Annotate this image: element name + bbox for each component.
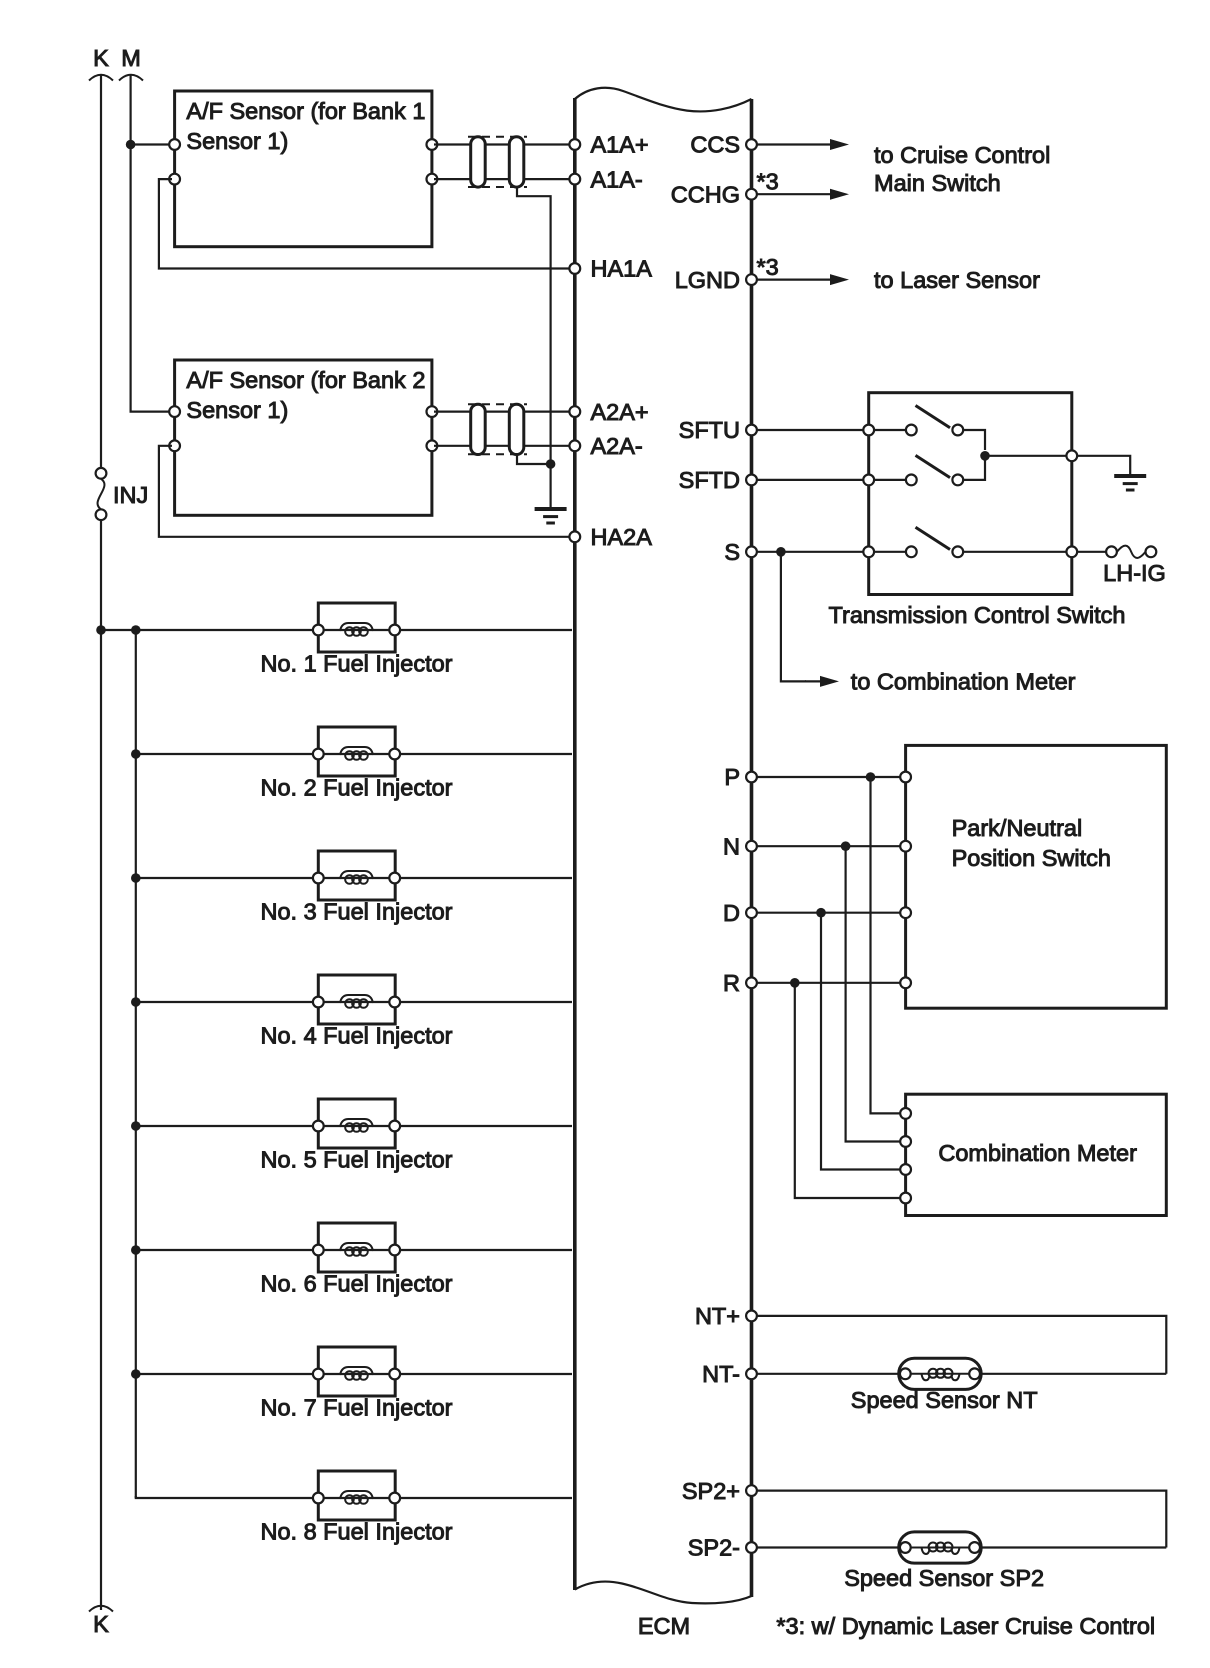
wire TCS sw1 right: [963, 430, 985, 450]
pin injector No.8 left: [313, 1493, 324, 1504]
wire SFTD: [757, 479, 866, 481]
svg-text:HA2A: HA2A: [591, 524, 653, 550]
terminal PNP D: [900, 907, 911, 918]
fuel injector No.1 box: [318, 603, 395, 652]
svg-text:R: R: [723, 970, 740, 996]
label No.1 Fuel Injector: [260, 650, 452, 676]
pin ECM R: [723, 970, 757, 996]
switch SFTU blade: [916, 406, 951, 428]
wire TCS sw1 left: [874, 429, 906, 431]
label No.5 Fuel Injector: [260, 1146, 452, 1172]
svg-text:INJ: INJ: [113, 482, 148, 508]
wire R: [757, 982, 903, 984]
pin ECM LGND: [675, 267, 757, 293]
pin B2 right2: [427, 440, 438, 451]
switch SFTD blade: [916, 455, 951, 477]
A/F sensor box (Bank 2 Sensor 1): [175, 360, 432, 515]
junction TCS common: [980, 451, 990, 461]
pin ECM A2A+: [569, 399, 648, 425]
svg-text:SFTD: SFTD: [679, 467, 740, 493]
fuel injector No.7 box: [318, 1347, 395, 1396]
ECM top break wave: [575, 88, 752, 112]
pin injector No.5 right: [389, 1121, 400, 1132]
terminal CM 3: [900, 1164, 911, 1175]
pin ECM HA1A: [569, 256, 652, 282]
wire A1A- pair: [434, 178, 572, 180]
label A/F Sensor Bank1 line1: [186, 98, 425, 124]
node M (top label): [121, 45, 141, 71]
junction bus/#50: [131, 1121, 141, 1131]
A/F sensor box (Bank 1 Sensor 1): [175, 91, 432, 247]
terminal CM 2: [900, 1136, 911, 1147]
svg-text:Position Switch: Position Switch: [952, 845, 1111, 871]
wire R to combination meter: [795, 983, 903, 1198]
wire #80 row left: [136, 1496, 318, 1498]
terminal CM 1: [900, 1108, 911, 1119]
shield ferrite TP2 a: [471, 404, 486, 454]
fuel injector No.3 box: [318, 851, 395, 900]
pin B2 left2: [169, 440, 180, 451]
terminal TCS SFTD: [863, 475, 874, 486]
terminal CM 4: [900, 1193, 911, 1204]
transmission control switch box: [869, 393, 1072, 595]
label Park/Neutral: [952, 815, 1083, 841]
terminal TCS SFTU: [863, 425, 874, 436]
shield dashes TP2: [468, 404, 527, 454]
junction bus/#10: [131, 625, 141, 635]
wire #20 row left: [136, 753, 318, 755]
pin injector No.6 right: [389, 1245, 400, 1256]
shield ferrite TP2 b: [509, 404, 524, 454]
wire #40 row left: [136, 1001, 318, 1003]
svg-text:A1A+: A1A+: [591, 132, 649, 158]
combination meter box: [906, 1094, 1167, 1215]
wire #60 row left: [136, 1249, 318, 1251]
pin injector No.1 right: [389, 625, 400, 636]
switch SFTD contact R: [952, 475, 963, 486]
pin ECM SFTU: [679, 417, 757, 443]
svg-text:CCHG: CCHG: [671, 181, 740, 207]
wire TCS to ground: [1077, 456, 1130, 474]
label Main Switch: [874, 170, 1001, 196]
wire S to LH-IG: [1077, 551, 1106, 553]
wire NT- left: [757, 1373, 899, 1375]
svg-text:A1A-: A1A-: [591, 166, 643, 192]
junction bus/#30: [131, 873, 141, 883]
label *3 (LGND): [757, 254, 779, 280]
pin injector No.8 right: [389, 1493, 400, 1504]
wire K rail upper: [100, 74, 102, 468]
label A/F Sensor Bank2 line1: [186, 367, 425, 393]
wire/arrow CCS to cruise control: [756, 139, 849, 150]
wire TCS common: [985, 455, 1067, 457]
junction bus/#60: [131, 1245, 141, 1255]
label A/F Sensor Bank1 line2: [186, 128, 288, 154]
pin speed sensor NT right: [969, 1368, 980, 1379]
pin ECM SP2-: [688, 1535, 757, 1561]
svg-text:CCS: CCS: [690, 132, 740, 158]
fuel injector No.1 coil: [323, 623, 572, 636]
terminal TCS common R: [1066, 450, 1077, 461]
pin ECM A1A-: [569, 166, 642, 192]
fuel injector No.5 coil: [323, 1119, 572, 1132]
junction R branch: [790, 978, 800, 988]
pin B2 left1: [169, 406, 180, 417]
wire M rail: [131, 74, 172, 412]
wire TCS sw2 right: [963, 456, 985, 480]
svg-text:Speed Sensor SP2: Speed Sensor SP2: [844, 1565, 1044, 1591]
park/neutral position switch box: [906, 745, 1167, 1008]
wire #10 row left: [101, 629, 318, 631]
pin injector No.5 left: [313, 1121, 324, 1132]
ECM bottom break wave: [575, 1582, 752, 1604]
speed sensor NT body: [899, 1358, 982, 1389]
label LH-IG: [1103, 560, 1166, 586]
svg-text:SP2-: SP2-: [688, 1535, 740, 1561]
wire TCS sw3 right: [963, 551, 1067, 553]
junction bus/#20: [131, 749, 141, 759]
junction N branch: [841, 841, 851, 851]
speed sensor NT coil: [910, 1369, 970, 1381]
svg-text:Main Switch: Main Switch: [874, 170, 1001, 196]
svg-text:LH-IG: LH-IG: [1103, 560, 1166, 586]
svg-text:A2A+: A2A+: [591, 399, 649, 425]
label Transmission Control Switch: [829, 602, 1126, 628]
junction shield drains: [546, 459, 556, 469]
svg-text:No. 2 Fuel Injector: No. 2 Fuel Injector: [260, 774, 452, 800]
label No.7 Fuel Injector: [260, 1394, 452, 1420]
node K (bottom label): [93, 1611, 109, 1637]
switch S blade: [916, 527, 951, 549]
wire A2A- pair: [434, 445, 572, 447]
svg-text:to Combination Meter: to Combination Meter: [851, 669, 1076, 695]
svg-text:SFTU: SFTU: [679, 417, 740, 443]
svg-text:Combination Meter: Combination Meter: [938, 1140, 1137, 1166]
wire SP2- right: [981, 1546, 1166, 1548]
label INJ: [113, 482, 148, 508]
svg-text:K: K: [93, 1611, 109, 1637]
label Speed Sensor NT: [851, 1387, 1038, 1413]
pin ECM D: [723, 900, 757, 926]
pin B1 left1: [169, 139, 180, 150]
terminal PNP R: [900, 977, 911, 988]
pin ECM P: [724, 764, 757, 790]
wire SP2+ loop: [757, 1491, 1166, 1548]
wire TP2 shield drain: [517, 454, 551, 464]
pin injector No.3 right: [389, 873, 400, 884]
svg-text:Speed Sensor NT: Speed Sensor NT: [851, 1387, 1038, 1413]
svg-text:SP2+: SP2+: [682, 1478, 740, 1504]
label No.2 Fuel Injector: [260, 774, 452, 800]
junction K/#10: [96, 625, 106, 635]
pin B1 right2: [427, 174, 438, 185]
label No.6 Fuel Injector: [260, 1270, 452, 1296]
svg-text:*3: w/ Dynamic Laser Cruise Co: *3: w/ Dynamic Laser Cruise Control: [776, 1613, 1155, 1639]
node K (top label): [93, 45, 109, 71]
fuse LH-IG: [1106, 546, 1156, 558]
svg-text:No. 8 Fuel Injector: No. 8 Fuel Injector: [260, 1518, 452, 1544]
svg-text:NT-: NT-: [702, 1361, 740, 1387]
svg-text:Transmission Control Switch: Transmission Control Switch: [829, 602, 1126, 628]
wire #50 row left: [136, 1125, 318, 1127]
fuel injector No.3 coil: [323, 871, 572, 884]
pin B2 right1: [427, 406, 438, 417]
label Position Switch: [952, 845, 1111, 871]
pin injector No.4 left: [313, 997, 324, 1008]
fuse INJ: [96, 468, 107, 520]
wire #70 row left: [136, 1373, 318, 1375]
junction M/B1: [126, 140, 136, 150]
wire K rail lower: [100, 520, 102, 1610]
svg-text:to Cruise Control: to Cruise Control: [874, 142, 1050, 168]
label A/F Sensor Bank2 line2: [186, 397, 288, 423]
svg-text:ECM: ECM: [638, 1613, 690, 1639]
wire B1 heater to HA1A: [159, 179, 572, 268]
wire P to combination meter: [871, 777, 904, 1113]
pin injector No.2 left: [313, 749, 324, 760]
junction S branch: [776, 547, 786, 557]
wire #30 row left: [136, 877, 318, 879]
label to Cruise Control: [874, 142, 1050, 168]
svg-text:P: P: [724, 764, 740, 790]
ground (shield): [535, 509, 567, 523]
fuel injector No.4 box: [318, 975, 395, 1024]
connector break K bottom: [89, 1606, 113, 1612]
pin injector No.7 right: [389, 1369, 400, 1380]
terminal TCS S out: [1066, 546, 1077, 557]
label No.8 Fuel Injector: [260, 1518, 452, 1544]
svg-text:Sensor 1): Sensor 1): [186, 128, 288, 154]
svg-text:N: N: [723, 833, 740, 859]
fuel injector No.4 coil: [323, 995, 572, 1008]
wire D: [757, 912, 903, 914]
terminal PNP N: [900, 841, 911, 852]
wire TP1 shield drain: [517, 187, 551, 462]
wire/arrow CCHG to cruise control: [756, 189, 849, 200]
wire injector bus: [135, 630, 137, 1498]
speed sensor SP2 coil: [910, 1543, 970, 1555]
label No.4 Fuel Injector: [260, 1022, 452, 1048]
svg-text:S: S: [724, 539, 740, 565]
wire B2 heater to HA2A: [159, 446, 572, 537]
switch SFTD contact L: [906, 475, 917, 486]
svg-text:HA1A: HA1A: [591, 256, 653, 282]
fuel injector No.6 box: [318, 1223, 395, 1272]
wire D to combination meter: [821, 913, 903, 1170]
pin speed sensor NT left: [900, 1368, 911, 1379]
fuel injector No.8 box: [318, 1471, 395, 1520]
wire SFTU: [757, 429, 866, 431]
shield ferrite TP1 a: [471, 137, 486, 187]
fuel injector No.2 box: [318, 727, 395, 776]
pin B1 left2: [169, 174, 180, 185]
svg-text:Park/Neutral: Park/Neutral: [952, 815, 1083, 841]
pin B1 right1: [427, 139, 438, 150]
fuel injector No.2 coil: [323, 747, 572, 760]
switch S contact L: [906, 546, 917, 557]
switch S contact R: [952, 546, 963, 557]
svg-text:A/F Sensor (for Bank 2: A/F Sensor (for Bank 2: [186, 367, 425, 393]
pin injector No.4 right: [389, 997, 400, 1008]
switch SFTU contact L: [906, 425, 917, 436]
pin ECM SFTD: [679, 467, 757, 493]
connector break K top: [89, 75, 113, 81]
connector break M top: [119, 75, 143, 81]
svg-text:No. 1 Fuel Injector: No. 1 Fuel Injector: [260, 650, 452, 676]
pin ECM NT+: [695, 1303, 757, 1329]
pin ECM A1A+: [569, 132, 648, 158]
wire P: [757, 776, 903, 778]
label to Combination Meter: [851, 669, 1076, 695]
pin ECM HA2A: [569, 524, 652, 550]
ECM right edge: [750, 99, 754, 1597]
wire M to B1 pin: [133, 143, 172, 145]
svg-text:A2A-: A2A-: [591, 433, 643, 459]
ECM left edge: [573, 98, 577, 1590]
footnote *3 dynamic laser cruise control: [776, 1613, 1155, 1639]
svg-text:NT+: NT+: [695, 1303, 740, 1329]
svg-text:No. 6 Fuel Injector: No. 6 Fuel Injector: [260, 1270, 452, 1296]
pin ECM A2A-: [569, 433, 642, 459]
wire NT- right: [981, 1373, 1166, 1375]
wire S: [757, 551, 866, 553]
svg-text:No. 4 Fuel Injector: No. 4 Fuel Injector: [260, 1022, 452, 1048]
svg-text:*3: *3: [757, 169, 779, 195]
wire shield to ground: [549, 464, 551, 507]
svg-text:M: M: [121, 45, 141, 71]
svg-text:to Laser Sensor: to Laser Sensor: [874, 267, 1040, 293]
pin ECM SP2+: [682, 1478, 757, 1504]
wire A1A+ pair: [434, 143, 572, 145]
svg-text:No. 5 Fuel Injector: No. 5 Fuel Injector: [260, 1146, 452, 1172]
switch SFTU contact R: [952, 425, 963, 436]
svg-text:*3: *3: [757, 254, 779, 280]
shield ferrite TP1 b: [509, 137, 524, 187]
pin injector No.1 left: [313, 625, 324, 636]
fuel injector No.8 coil: [323, 1491, 572, 1504]
junction D branch: [816, 908, 826, 918]
label ECM: [638, 1613, 690, 1639]
svg-text:No. 3 Fuel Injector: No. 3 Fuel Injector: [260, 898, 452, 924]
ground (TCS): [1114, 476, 1146, 490]
wire/arrow LGND to laser sensor: [756, 274, 849, 285]
wire NT+ loop: [757, 1316, 1166, 1374]
svg-text:No. 7 Fuel Injector: No. 7 Fuel Injector: [260, 1394, 452, 1420]
pin speed sensor SP2 right: [969, 1542, 980, 1553]
junction P branch: [866, 772, 876, 782]
junction bus/#40: [131, 997, 141, 1007]
wire TCS sw2 left: [874, 479, 906, 481]
pin ECM S: [724, 539, 757, 565]
label No.3 Fuel Injector: [260, 898, 452, 924]
wire N: [757, 845, 903, 847]
wire A2A+ pair: [434, 411, 572, 413]
wire N to combination meter: [846, 846, 903, 1141]
svg-text:A/F Sensor (for Bank 1: A/F Sensor (for Bank 1: [186, 98, 425, 124]
pin injector No.2 right: [389, 749, 400, 760]
pin ECM N: [723, 833, 757, 859]
pin ECM CCHG: [671, 181, 757, 207]
svg-text:D: D: [723, 900, 740, 926]
svg-text:K: K: [93, 45, 109, 71]
label *3 (CCHG): [757, 169, 779, 195]
pin ECM NT-: [702, 1361, 757, 1387]
svg-text:LGND: LGND: [675, 267, 740, 293]
pin ECM CCS: [690, 132, 757, 158]
label Speed Sensor SP2: [844, 1565, 1044, 1591]
terminal PNP P: [900, 772, 911, 783]
wire TCS sw3 left: [874, 551, 906, 553]
shield dashes TP1: [468, 137, 527, 187]
pin speed sensor SP2 left: [900, 1542, 911, 1553]
label to Laser Sensor: [874, 267, 1040, 293]
pin injector No.3 left: [313, 873, 324, 884]
junction bus/#70: [131, 1369, 141, 1379]
speed sensor SP2 body: [899, 1532, 982, 1563]
wire SP2- left: [757, 1546, 899, 1548]
fuel injector No.6 coil: [323, 1243, 572, 1256]
label Combination Meter: [938, 1140, 1137, 1166]
wire/arrow to combination meter: [781, 552, 839, 687]
fuel injector No.7 coil: [323, 1367, 572, 1380]
terminal TCS S: [863, 546, 874, 557]
pin injector No.6 left: [313, 1245, 324, 1256]
fuel injector No.5 box: [318, 1099, 395, 1148]
pin injector No.7 left: [313, 1369, 324, 1380]
svg-text:Sensor 1): Sensor 1): [186, 397, 288, 423]
